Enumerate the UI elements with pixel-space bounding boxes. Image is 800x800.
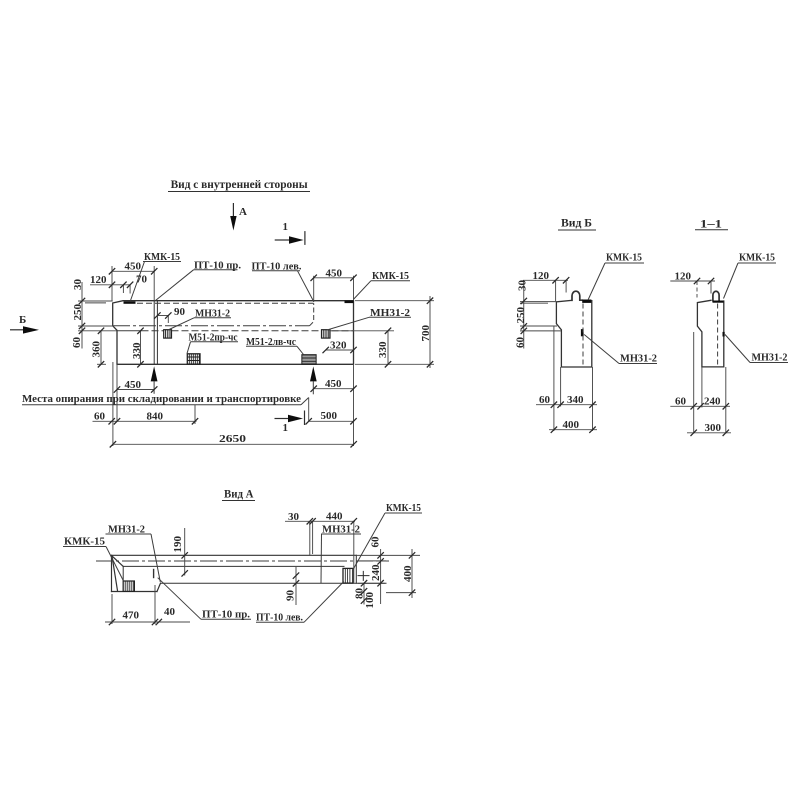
svg-text:1–1: 1–1 bbox=[700, 217, 722, 231]
svg-text:250: 250 bbox=[515, 307, 527, 324]
svg-text:60: 60 bbox=[515, 337, 527, 349]
svg-text:700: 700 bbox=[420, 325, 432, 342]
svg-text:Места опирания при складирован: Места опирания при складировании и транс… bbox=[22, 393, 301, 405]
svg-text:КМК-15: КМК-15 bbox=[372, 270, 409, 282]
svg-text:90: 90 bbox=[285, 590, 297, 602]
svg-text:450: 450 bbox=[125, 379, 142, 391]
svg-text:М51-2лв-чс: М51-2лв-чс bbox=[246, 336, 296, 348]
svg-text:330: 330 bbox=[377, 341, 389, 358]
svg-text:МН31-2: МН31-2 bbox=[322, 524, 360, 536]
svg-text:30: 30 bbox=[72, 279, 84, 291]
svg-text:МН31-2: МН31-2 bbox=[620, 353, 657, 365]
svg-text:КМК-15: КМК-15 bbox=[64, 536, 105, 548]
svg-text:КМК-15: КМК-15 bbox=[739, 252, 775, 264]
svg-text:КМК-15: КМК-15 bbox=[144, 251, 180, 263]
svg-text:500: 500 bbox=[321, 410, 338, 422]
svg-text:А: А bbox=[239, 206, 247, 218]
svg-text:90: 90 bbox=[174, 306, 186, 318]
svg-text:1: 1 bbox=[283, 221, 289, 233]
svg-text:320: 320 bbox=[330, 340, 347, 352]
svg-text:М51-2пр-чс: М51-2пр-чс bbox=[189, 331, 238, 343]
svg-text:100: 100 bbox=[364, 592, 376, 609]
svg-text:КМК-15: КМК-15 bbox=[386, 502, 421, 514]
svg-text:МН31-2: МН31-2 bbox=[195, 307, 230, 319]
svg-text:400: 400 bbox=[563, 419, 580, 431]
svg-text:КМК-15: КМК-15 bbox=[606, 252, 642, 264]
svg-text:2650: 2650 bbox=[219, 433, 247, 445]
svg-text:МН31-2: МН31-2 bbox=[108, 524, 145, 536]
svg-text:340: 340 bbox=[567, 394, 584, 406]
svg-text:120: 120 bbox=[675, 271, 692, 283]
svg-text:Б: Б bbox=[19, 314, 26, 326]
svg-text:450: 450 bbox=[125, 261, 142, 273]
svg-text:ПТ-10 лев.: ПТ-10 лев. bbox=[256, 611, 303, 623]
svg-text:300: 300 bbox=[705, 422, 722, 434]
svg-text:450: 450 bbox=[325, 378, 342, 390]
svg-text:400: 400 bbox=[402, 565, 414, 582]
svg-text:250: 250 bbox=[72, 304, 84, 321]
svg-text:40: 40 bbox=[164, 606, 176, 618]
svg-text:Вид А: Вид А bbox=[224, 487, 254, 501]
svg-text:190: 190 bbox=[172, 536, 184, 553]
svg-text:470: 470 bbox=[123, 610, 140, 622]
svg-text:60: 60 bbox=[94, 411, 106, 423]
svg-text:70: 70 bbox=[136, 274, 148, 286]
svg-text:60: 60 bbox=[71, 337, 83, 349]
svg-text:Вид с внутренней стороны: Вид с внутренней стороны bbox=[171, 177, 309, 191]
svg-text:440: 440 bbox=[326, 511, 343, 523]
svg-text:МН31-2: МН31-2 bbox=[370, 307, 411, 319]
svg-text:30: 30 bbox=[517, 280, 529, 292]
svg-text:ПТ-10 пр.: ПТ-10 пр. bbox=[194, 259, 241, 271]
svg-text:Вид Б: Вид Б bbox=[561, 216, 592, 230]
svg-text:120: 120 bbox=[533, 270, 550, 282]
svg-text:240: 240 bbox=[370, 564, 382, 581]
svg-text:1: 1 bbox=[283, 422, 289, 434]
svg-text:840: 840 bbox=[147, 411, 164, 423]
svg-text:60: 60 bbox=[539, 394, 551, 406]
svg-text:330: 330 bbox=[131, 342, 143, 359]
svg-text:450: 450 bbox=[326, 268, 343, 280]
svg-text:120: 120 bbox=[90, 274, 107, 286]
svg-text:240: 240 bbox=[704, 396, 721, 408]
svg-text:ПТ-10 пр.: ПТ-10 пр. bbox=[202, 609, 250, 621]
svg-text:30: 30 bbox=[288, 511, 300, 523]
svg-text:60: 60 bbox=[675, 396, 687, 408]
svg-text:60: 60 bbox=[370, 536, 382, 548]
svg-text:МН31-2: МН31-2 bbox=[752, 352, 788, 364]
svg-text:ПТ-10 лев.: ПТ-10 лев. bbox=[252, 260, 302, 272]
svg-text:360: 360 bbox=[91, 341, 103, 358]
